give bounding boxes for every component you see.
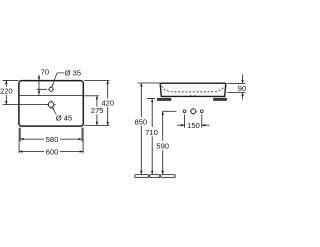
fixing hole small left (183, 110, 186, 113)
drain ticks under basin (190, 95, 192, 97)
dim 70 arrows (38, 77, 40, 81)
dim 90 line with outside arrows (242, 74, 244, 83)
dim 420 / 275 extension bottom (84, 124, 109, 126)
dim 275 extension at ledge level (84, 95, 99, 97)
svg-text:Ø 35: Ø 35 (65, 69, 81, 78)
dim 220 arrows (5, 80, 7, 84)
svg-text:220: 220 (0, 86, 13, 95)
svg-text:850: 850 (134, 118, 147, 127)
fixing hole small right (200, 110, 203, 113)
dim 590 extension at holes level (163, 110, 177, 112)
tap hole circle (48, 86, 54, 92)
svg-text:600: 600 (46, 147, 59, 156)
dim 600 line (19, 151, 44, 153)
svg-text:275: 275 (91, 106, 104, 115)
dim 420 line (107, 80, 109, 98)
arrowhead O35 (52, 84, 54, 87)
svg-text:90: 90 (238, 84, 246, 93)
left mounting pad (157, 98, 171, 101)
dim 90 extension lines (227, 82, 245, 84)
dim 220 extension top (3, 79, 19, 81)
basin body outline (160, 83, 226, 96)
inner bowl hidden dashed line (162, 86, 224, 92)
dim 420 extension top (84, 79, 109, 81)
dim 580 line (20, 138, 44, 140)
drain hole symbol (47, 100, 56, 109)
floor pad 2 (149, 175, 159, 178)
right mounting pad (213, 98, 226, 101)
arrowhead O45 (52, 107, 54, 110)
dim 590 line (162, 111, 164, 140)
dim 710 line (151, 99, 153, 127)
svg-text:580: 580 (46, 135, 59, 144)
leader line for O35 (52, 73, 64, 86)
dim 150 line outside arrows (177, 124, 184, 126)
floor pad 3 (161, 175, 176, 178)
basin bottom line (161, 95, 224, 97)
dim 275 line (96, 96, 98, 107)
fixing hole center (190, 108, 197, 115)
dim 220 line lower segment (5, 95, 7, 105)
inner ledge line (20, 95, 83, 97)
svg-text:710: 710 (145, 128, 158, 137)
dim 70 stub at hole level (37, 88, 47, 90)
dim 220 extension at drain level (3, 104, 49, 106)
dim 850 extension at rim level (138, 82, 160, 84)
dim 850 line (140, 83, 142, 117)
dim 580/600 extension verticals (18, 128, 20, 154)
basin outer rim rect (19, 81, 83, 127)
svg-text:Ø 45: Ø 45 (56, 113, 72, 122)
dim 710 extension at underside (147, 98, 155, 100)
dim 150 extension verticals (184, 114, 186, 127)
svg-text:70: 70 (41, 67, 49, 76)
floor pad 1 (135, 175, 149, 178)
dim 220 line upper segment (5, 80, 7, 86)
dim 70 vertical line (38, 75, 40, 96)
leader line for O45 (52, 107, 56, 115)
svg-text:150: 150 (187, 121, 200, 130)
svg-text:590: 590 (156, 142, 169, 151)
